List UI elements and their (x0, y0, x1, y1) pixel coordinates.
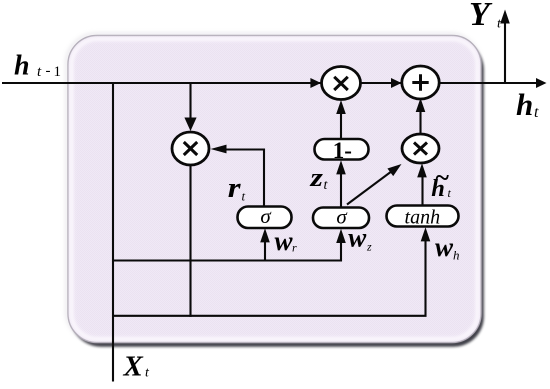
adder circle (402, 66, 439, 99)
arrowhead: up into sigma-r (w_r) (260, 228, 270, 242)
svg-text:σ: σ (260, 204, 272, 228)
wire: vertical from M1 bottom down to lower feed line (189, 164, 191, 317)
sigma-z pill box (313, 208, 369, 229)
svg-text:z: z (309, 163, 324, 192)
svg-text:σ: σ (336, 204, 348, 228)
svg-text:z: z (366, 239, 372, 253)
GRU cell body inner highlight (72, 39, 478, 339)
arrowhead: Y(t) up (500, 10, 510, 24)
wire: branch up to sigma-r (w_r) (264, 236, 266, 261)
arrowhead: left into M1 from sigma-r (211, 145, 227, 154)
svg-text:t: t (497, 17, 502, 32)
wire: multiplier M3 up to adder (419, 104, 421, 134)
plus symbol (412, 74, 428, 90)
wire: diagonal sigma-z to multiplier M3 (347, 168, 396, 205)
svg-text:tanh: tanh (405, 206, 441, 228)
arrowhead: up into M2 from 1- (336, 100, 346, 114)
arrowhead: diagonal into M3 (387, 164, 401, 176)
wire: h(t-1) horizontal line (2, 82, 536, 84)
svg-text:1-: 1- (333, 138, 352, 163)
1- pill box (315, 139, 369, 160)
multiplier M3 circle (402, 134, 439, 163)
GRU cell body (rounded rectangle) (68, 36, 481, 343)
multiplier M2 circle (322, 67, 361, 100)
wire: tanh up to multiplier M3 (421, 169, 423, 206)
wire: upper feed line y=260.5 (112, 234, 341, 261)
multiply symbol M1 (184, 142, 197, 155)
wire: X(t) input vertical at x=113 (112, 83, 114, 382)
arrowhead: down into M1 (184, 118, 196, 132)
svg-text:w: w (275, 226, 294, 256)
wire: sigma-r output up and left into M1 (226, 150, 264, 208)
wire: lower feed line y=315.8 to tanh (w_h) (112, 234, 426, 316)
arrowhead: into M2 on h line (310, 78, 321, 88)
tanh pill box (387, 206, 459, 227)
svg-text:w: w (348, 223, 367, 253)
multiply symbol M3 (414, 143, 427, 155)
GRU cell body drop shadow (bottom-right dark) (71, 40, 484, 347)
arrowhead: up into sigma-z (w_z) (336, 229, 346, 243)
wire: Y(t) output vertical (504, 22, 506, 83)
multiply symbol M2 (334, 77, 348, 90)
svg-text:h: h (14, 51, 30, 82)
svg-text:t: t (37, 64, 42, 80)
svg-text:t: t (242, 189, 246, 204)
svg-text:r: r (292, 241, 297, 255)
arrowhead: up into M3 from tanh (417, 163, 427, 177)
svg-text:t: t (145, 366, 150, 381)
GRU cell body light fuzz top-left (67, 34, 480, 341)
arrowhead: h(t) end of line (536, 78, 547, 88)
arrowhead: up into adder from M3 (416, 98, 426, 112)
wire: 1- box up to multiplier M2 (340, 106, 342, 139)
arrowhead: up into tanh (w_h) (421, 227, 431, 241)
sigma-r pill box (238, 207, 292, 229)
svg-text:h: h (516, 87, 533, 122)
svg-text:r: r (228, 172, 242, 204)
svg-text:Y: Y (469, 0, 493, 33)
arrowhead: up into 1- box (336, 160, 346, 174)
svg-text:t: t (534, 104, 539, 121)
wire: z line sigma-z up to 1- box (340, 166, 342, 208)
wire: vertical from h line into multiplier M1 (189, 83, 191, 121)
arrowhead: into adder on h line (391, 78, 402, 88)
svg-text:-: - (46, 63, 51, 79)
svg-text:1: 1 (54, 64, 62, 80)
svg-text:h: h (453, 248, 460, 263)
svg-text:w: w (435, 232, 454, 262)
multiplier M1 circle (172, 132, 209, 165)
svg-text:X: X (123, 351, 144, 383)
